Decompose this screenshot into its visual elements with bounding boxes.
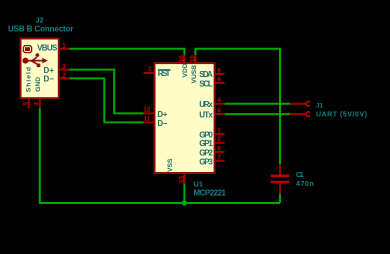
pin SCL stub (U1) <box>215 82 225 84</box>
svg-text:GP0: GP0 <box>199 131 213 140</box>
pin D+ stub (U1) <box>144 112 155 114</box>
svg-text:8: 8 <box>217 67 221 74</box>
svg-text:11: 11 <box>144 116 151 123</box>
connector J1 pin 1 <box>290 103 306 105</box>
svg-text:UTx: UTx <box>199 111 213 120</box>
pin 4 stub (J2 GND) <box>39 98 41 108</box>
pin RST stub (U1) <box>144 72 155 74</box>
pin GP0 stub (U1) <box>215 133 225 135</box>
svg-text:16: 16 <box>178 55 185 63</box>
svg-text:GP3: GP3 <box>199 157 213 166</box>
pin UTx stub (U1) <box>215 113 225 115</box>
svg-text:RST: RST <box>158 69 171 78</box>
svg-text:2: 2 <box>217 136 221 143</box>
svg-text:D−: D− <box>44 75 55 84</box>
svg-text:UART (5V/0V): UART (5V/0V) <box>316 112 367 119</box>
op-amp U1 body (MCP2221 IC) <box>155 63 215 173</box>
pin GP3 stub (U1) <box>215 160 225 162</box>
svg-text:5: 5 <box>217 108 221 115</box>
svg-text:VUSB: VUSB <box>191 65 198 84</box>
wire D- (J2 to U1) <box>69 78 143 122</box>
svg-text:13: 13 <box>178 175 185 183</box>
pin VUSB stub (U1 top) <box>194 55 196 63</box>
wire VBUS to VDD <box>69 49 184 56</box>
svg-text:VBUS: VBUS <box>37 44 58 53</box>
wire GND down and bottom rail <box>40 108 280 203</box>
svg-text:12: 12 <box>143 107 151 114</box>
svg-text:1: 1 <box>62 43 66 50</box>
wire D+ (J2 to U1) <box>69 70 143 114</box>
svg-text:4: 4 <box>34 102 41 106</box>
svg-text:Shield: Shield <box>26 67 33 92</box>
svg-text:GND: GND <box>35 77 42 92</box>
wire URx to J1 <box>225 103 290 105</box>
svg-text:10: 10 <box>189 55 196 63</box>
svg-text:C1: C1 <box>296 172 304 179</box>
USB trident icon <box>22 53 47 67</box>
pin 2 stub (J2 D-) <box>59 77 69 79</box>
svg-text:3: 3 <box>148 66 152 73</box>
svg-text:4: 4 <box>217 97 221 104</box>
svg-text:MCP2221: MCP2221 <box>194 189 227 198</box>
wire VUSB to vertical rail <box>195 49 280 165</box>
pin GP2 stub (U1) <box>215 151 225 153</box>
svg-text:D+: D+ <box>157 110 167 119</box>
svg-text:2: 2 <box>62 72 66 79</box>
svg-text:J1: J1 <box>316 102 324 109</box>
pin SDA stub (U1) <box>215 73 225 75</box>
connector J1 pin 2 <box>290 113 306 115</box>
wire UTx to J1 <box>225 113 290 115</box>
svg-text:5: 5 <box>23 102 30 106</box>
svg-text:URx: URx <box>199 100 213 109</box>
USB plug icon <box>23 46 31 53</box>
capacitor C1 <box>271 164 290 193</box>
pin 5 stub (J2 Shield) <box>28 98 30 108</box>
svg-text:9: 9 <box>217 76 221 83</box>
svg-text:GP1: GP1 <box>199 139 213 148</box>
connector J2 body <box>21 39 59 99</box>
svg-text:470n: 470n <box>296 181 314 188</box>
svg-text:J2: J2 <box>36 15 44 24</box>
svg-text:VSS: VSS <box>167 158 174 172</box>
svg-text:USB B Connector: USB B Connector <box>8 25 74 34</box>
pin VSS stub (U1 bottom) <box>183 173 185 183</box>
svg-text:VDD: VDD <box>182 63 189 77</box>
svg-text:3: 3 <box>62 64 66 71</box>
svg-text:U1: U1 <box>194 179 204 188</box>
svg-text:SCL: SCL <box>199 79 213 88</box>
svg-text:D−: D− <box>157 119 167 128</box>
junction dot <box>182 200 187 205</box>
wire C1 bottom to rail <box>279 194 281 203</box>
svg-text:7: 7 <box>217 154 221 161</box>
pin VDD stub (U1 top) <box>183 55 185 63</box>
svg-text:SDA: SDA <box>199 70 213 79</box>
pin 3 stub (J2 D+) <box>59 69 69 71</box>
svg-text:GP2: GP2 <box>199 148 213 157</box>
svg-text:6: 6 <box>217 145 221 152</box>
pin D- stub (U1) <box>144 121 155 123</box>
wire VSS to rail <box>183 183 185 203</box>
pin URx stub (U1) <box>215 103 225 105</box>
pin 1 stub (J2 VBUS) <box>59 48 69 50</box>
svg-text:1: 1 <box>217 128 221 135</box>
pin GP1 stub (U1) <box>215 142 225 144</box>
svg-text:D+: D+ <box>44 66 55 75</box>
